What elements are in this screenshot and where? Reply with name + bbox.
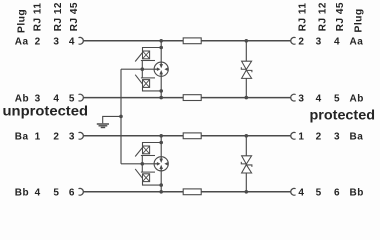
resistor R4 bbox=[183, 189, 201, 195]
switch fixed contact bar bottom block 1 bbox=[141, 77, 155, 79]
svg-text:RJ 11: RJ 11 bbox=[33, 3, 44, 32]
svg-text:4: 4 bbox=[35, 188, 41, 199]
connector socket left Aa bbox=[79, 37, 84, 44]
switch lever bottom block 1 bbox=[135, 75, 142, 85]
svg-text:2: 2 bbox=[35, 37, 41, 48]
connector socket right Bb bbox=[291, 188, 296, 195]
svg-text:Ba: Ba bbox=[350, 132, 364, 143]
connector socket left Ba bbox=[79, 132, 84, 139]
switch fixed contact bar top block 2 bbox=[141, 155, 155, 157]
junction node top lead block 2 bbox=[159, 141, 163, 145]
wire lead to bottom disconnect box block 1 bbox=[143, 87, 162, 91]
svg-text:RJ 45: RJ 45 bbox=[335, 2, 346, 31]
svg-text:3: 3 bbox=[69, 132, 75, 143]
svg-text:1: 1 bbox=[298, 132, 304, 143]
wire vertical branch x=161 block 1 bbox=[160, 41, 162, 98]
junction node Ba-TVS bbox=[245, 134, 249, 138]
connector socket right Ba bbox=[291, 132, 296, 139]
junction node top lead block 1 bbox=[159, 46, 163, 50]
svg-text:2: 2 bbox=[298, 37, 304, 48]
junction node Ba-branch bbox=[159, 134, 163, 138]
connector socket right Aa bbox=[291, 37, 296, 44]
svg-text:6: 6 bbox=[69, 188, 75, 199]
svg-text:1: 1 bbox=[35, 132, 41, 143]
wire thermal-disconnect stub block 1 bbox=[141, 61, 143, 78]
svg-text:2: 2 bbox=[53, 132, 59, 143]
wire lead to top disconnect box block 2 bbox=[143, 143, 162, 147]
switch fixed contact bar top block 1 bbox=[141, 60, 155, 62]
svg-text:3: 3 bbox=[316, 37, 322, 48]
junction node ground tap bbox=[119, 115, 123, 119]
TVS suppressor diode D2 bbox=[241, 156, 252, 173]
wire ground bus vertical bbox=[120, 69, 122, 164]
svg-text:3: 3 bbox=[53, 37, 59, 48]
wire Aa bbox=[83, 40, 290, 42]
svg-text:4: 4 bbox=[69, 37, 75, 48]
svg-text:Ba: Ba bbox=[15, 132, 29, 143]
wire thermal-disconnect stub block 2 bbox=[141, 156, 143, 173]
connector socket left Bb bbox=[79, 188, 84, 195]
connector socket left Ab bbox=[79, 94, 84, 101]
wire Ba bbox=[83, 135, 290, 137]
connector socket right Ab bbox=[291, 94, 296, 101]
svg-text:RJ 12: RJ 12 bbox=[317, 2, 328, 31]
resistor R1 bbox=[183, 38, 201, 44]
svg-text:5: 5 bbox=[53, 188, 59, 199]
gas discharge tube G2 electrode arrows bbox=[154, 157, 168, 171]
ground bbox=[97, 124, 109, 128]
junction node Ab-TVS bbox=[245, 96, 249, 100]
wire GDT center electrode line block 1 bbox=[121, 68, 154, 70]
svg-text:3: 3 bbox=[298, 94, 304, 105]
junction node Aa-TVS bbox=[245, 39, 249, 43]
gas discharge tube G2 circle bbox=[154, 157, 168, 171]
thermal disconnect indicator box F1a bbox=[143, 51, 150, 59]
wire vertical branch x=161 block 2 bbox=[160, 136, 162, 192]
wire lead to top disconnect box block 1 bbox=[143, 48, 162, 52]
junction node bottom lead block 1 bbox=[159, 89, 163, 93]
svg-text:Bb: Bb bbox=[15, 188, 29, 199]
svg-text:Aa: Aa bbox=[15, 37, 29, 48]
junction node Aa-branch bbox=[159, 39, 163, 43]
thermal disconnect indicator box F2a bbox=[143, 146, 150, 154]
svg-text:RJ 11: RJ 11 bbox=[298, 3, 309, 32]
svg-text:Aa: Aa bbox=[350, 37, 364, 48]
TVS suppressor diode D1 bbox=[241, 61, 252, 78]
resistor R3 bbox=[183, 133, 201, 139]
wire Ab bbox=[83, 97, 290, 99]
svg-text:Bb: Bb bbox=[350, 188, 364, 199]
junction node bottom lead block 2 bbox=[159, 183, 163, 187]
svg-text:protected: protected bbox=[310, 108, 376, 123]
thermal disconnect indicator box F1b bbox=[143, 80, 150, 88]
svg-text:4: 4 bbox=[298, 188, 304, 199]
svg-text:4: 4 bbox=[316, 94, 322, 105]
gas discharge tube G1 electrode arrows bbox=[154, 62, 168, 76]
svg-text:Ab: Ab bbox=[350, 94, 364, 105]
svg-text:6: 6 bbox=[334, 188, 340, 199]
svg-text:unprotected: unprotected bbox=[3, 103, 89, 118]
svg-text:RJ 12: RJ 12 bbox=[53, 2, 64, 31]
svg-text:Plug: Plug bbox=[353, 8, 364, 32]
wire Bb bbox=[83, 191, 290, 193]
svg-text:RJ 45: RJ 45 bbox=[69, 2, 80, 31]
gas discharge tube G1 circle bbox=[154, 62, 168, 76]
switch lever bottom block 2 bbox=[135, 169, 142, 179]
resistor R2 bbox=[183, 95, 201, 101]
svg-text:3: 3 bbox=[334, 132, 340, 143]
switch lever top block 1 bbox=[135, 52, 143, 62]
junction node Ab-branch bbox=[159, 96, 163, 100]
svg-text:5: 5 bbox=[316, 188, 322, 199]
junction node Bb-branch bbox=[159, 190, 163, 194]
svg-text:5: 5 bbox=[334, 94, 340, 105]
wire GDT center electrode line block 2 bbox=[121, 163, 154, 165]
junction node Bb-TVS bbox=[245, 190, 249, 194]
svg-text:4: 4 bbox=[334, 37, 340, 48]
switch lever top block 2 bbox=[135, 147, 143, 157]
switch fixed contact bar bottom block 2 bbox=[141, 171, 155, 173]
wire lead to bottom disconnect box block 2 bbox=[143, 182, 162, 186]
junction node center electrode block 2 bbox=[141, 162, 145, 166]
wire ground tap bbox=[103, 116, 121, 123]
TVS suppressor diode line block 2 bbox=[245, 136, 247, 192]
thermal disconnect indicator box F2b bbox=[143, 174, 150, 182]
junction node center electrode block 1 bbox=[141, 67, 145, 71]
svg-text:Plug: Plug bbox=[16, 9, 27, 33]
TVS suppressor diode line block 1 bbox=[245, 41, 247, 98]
svg-text:2: 2 bbox=[316, 132, 322, 143]
